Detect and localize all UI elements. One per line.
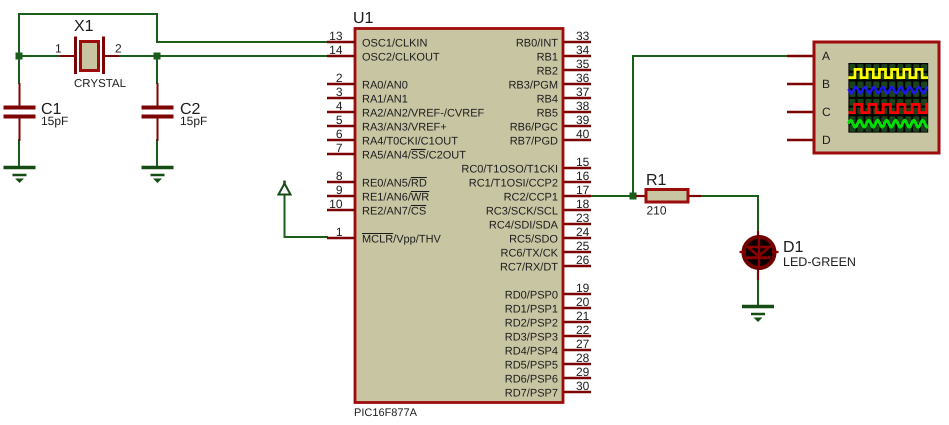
svg-text:3: 3 — [336, 85, 343, 99]
svg-text:RC0/T1OSO/T1CKI: RC0/T1OSO/T1CKI — [461, 164, 558, 176]
svg-text:23: 23 — [576, 211, 590, 225]
svg-text:RD5/PSP5: RD5/PSP5 — [505, 360, 558, 372]
svg-text:OSC1/CLKIN: OSC1/CLKIN — [362, 38, 427, 50]
svg-text:15: 15 — [576, 155, 590, 169]
svg-text:7: 7 — [336, 141, 343, 155]
svg-text:RA5/AN4/SS/C2OUT: RA5/AN4/SS/C2OUT — [362, 150, 466, 162]
svg-text:33: 33 — [576, 29, 590, 43]
svg-text:R1: R1 — [646, 172, 667, 189]
svg-text:RD1/PSP1: RD1/PSP1 — [505, 304, 558, 316]
svg-text:RB0/INT: RB0/INT — [516, 38, 558, 50]
svg-text:36: 36 — [576, 71, 590, 85]
svg-text:RD0/PSP0: RD0/PSP0 — [505, 290, 558, 302]
svg-text:26: 26 — [576, 253, 590, 267]
svg-text:40: 40 — [576, 127, 590, 141]
svg-text:RE2/AN7/CS: RE2/AN7/CS — [362, 206, 426, 218]
svg-text:RA0/AN0: RA0/AN0 — [362, 80, 408, 92]
svg-text:RE0/AN5/RD: RE0/AN5/RD — [362, 178, 427, 190]
svg-text:2: 2 — [336, 71, 343, 85]
svg-text:RC3/SCK/SCL: RC3/SCK/SCL — [486, 206, 558, 218]
svg-text:38: 38 — [576, 99, 590, 113]
svg-text:X1: X1 — [74, 18, 94, 35]
svg-text:210: 210 — [647, 204, 667, 218]
svg-text:1: 1 — [336, 225, 343, 239]
svg-text:15pF: 15pF — [180, 114, 207, 128]
svg-text:RA2/AN2/VREF-/CVREF: RA2/AN2/VREF-/CVREF — [362, 108, 485, 120]
svg-text:RA1/AN1: RA1/AN1 — [362, 94, 408, 106]
svg-text:10: 10 — [329, 197, 343, 211]
svg-text:RD6/PSP6: RD6/PSP6 — [505, 374, 558, 386]
svg-text:30: 30 — [576, 379, 590, 393]
svg-text:RC5/SDO: RC5/SDO — [509, 234, 558, 246]
svg-text:PIC16F877A: PIC16F877A — [354, 407, 418, 419]
svg-text:RC2/CCP1: RC2/CCP1 — [504, 192, 558, 204]
svg-text:29: 29 — [576, 365, 590, 379]
svg-text:5: 5 — [336, 113, 343, 127]
svg-text:RA4/T0CKI/C1OUT: RA4/T0CKI/C1OUT — [362, 136, 458, 148]
svg-text:22: 22 — [576, 323, 590, 337]
svg-text:RD7/PSP7: RD7/PSP7 — [505, 388, 558, 400]
svg-text:RB5: RB5 — [537, 108, 558, 120]
svg-text:RD2/PSP2: RD2/PSP2 — [505, 318, 558, 330]
svg-text:15pF: 15pF — [41, 114, 68, 128]
svg-text:8: 8 — [336, 169, 343, 183]
svg-text:16: 16 — [576, 169, 590, 183]
svg-text:21: 21 — [576, 309, 590, 323]
svg-text:D: D — [822, 133, 831, 147]
svg-text:2: 2 — [115, 42, 122, 56]
svg-text:RD3/PSP3: RD3/PSP3 — [505, 332, 558, 344]
svg-text:13: 13 — [329, 29, 343, 43]
svg-text:D1: D1 — [783, 239, 804, 256]
svg-text:B: B — [822, 77, 830, 91]
svg-text:20: 20 — [576, 295, 590, 309]
svg-text:RB7/PGD: RB7/PGD — [510, 136, 558, 148]
svg-text:RD4/PSP4: RD4/PSP4 — [505, 346, 558, 358]
svg-text:RC1/T1OSI/CCP2: RC1/T1OSI/CCP2 — [469, 178, 558, 190]
svg-text:37: 37 — [576, 85, 590, 99]
svg-text:19: 19 — [576, 281, 590, 295]
svg-text:4: 4 — [336, 99, 343, 113]
svg-text:OSC2/CLKOUT: OSC2/CLKOUT — [362, 52, 440, 64]
svg-text:1: 1 — [55, 42, 62, 56]
svg-text:RE1/AN6/WR: RE1/AN6/WR — [362, 192, 429, 204]
svg-text:RA3/AN3/VREF+: RA3/AN3/VREF+ — [362, 122, 447, 134]
svg-text:RC6/TX/CK: RC6/TX/CK — [501, 248, 559, 260]
svg-text:RB2: RB2 — [537, 66, 558, 78]
svg-text:RB3/PGM: RB3/PGM — [508, 80, 558, 92]
svg-text:LED-GREEN: LED-GREEN — [783, 255, 856, 269]
svg-text:17: 17 — [576, 183, 590, 197]
svg-text:RC4/SDI/SDA: RC4/SDI/SDA — [489, 220, 559, 232]
svg-text:RB1: RB1 — [537, 52, 558, 64]
svg-text:6: 6 — [336, 127, 343, 141]
svg-text:35: 35 — [576, 57, 590, 71]
svg-text:U1: U1 — [353, 10, 374, 27]
svg-text:9: 9 — [336, 183, 343, 197]
svg-text:RC7/RX/DT: RC7/RX/DT — [500, 262, 558, 274]
svg-text:28: 28 — [576, 351, 590, 365]
svg-text:24: 24 — [576, 225, 590, 239]
svg-text:14: 14 — [329, 43, 343, 57]
svg-text:25: 25 — [576, 239, 590, 253]
svg-text:A: A — [822, 49, 830, 63]
svg-text:34: 34 — [576, 43, 590, 57]
svg-text:MCLR/Vpp/THV: MCLR/Vpp/THV — [362, 234, 442, 246]
svg-text:27: 27 — [576, 337, 590, 351]
svg-text:18: 18 — [576, 197, 590, 211]
svg-text:CRYSTAL: CRYSTAL — [74, 78, 127, 90]
svg-text:RB6/PGC: RB6/PGC — [510, 122, 558, 134]
svg-text:C: C — [822, 105, 831, 119]
svg-text:39: 39 — [576, 113, 590, 127]
svg-text:RB4: RB4 — [537, 94, 558, 106]
